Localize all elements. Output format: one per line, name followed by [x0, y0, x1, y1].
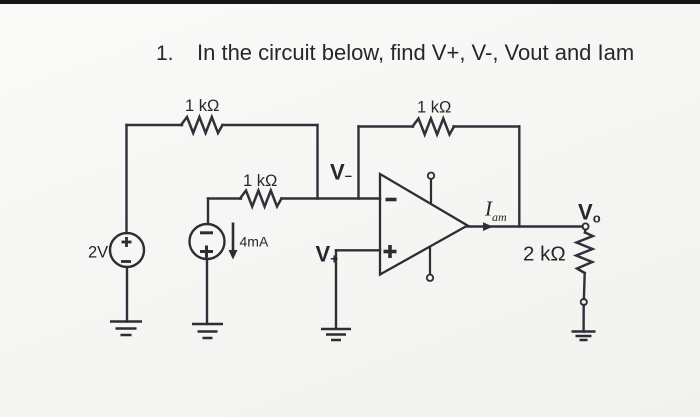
svg-text:V–: V–: [330, 160, 352, 185]
4mA arrowhead: [229, 250, 238, 260]
op-amp inverting input minus sign: [386, 198, 397, 202]
ground for 2k resistor: [572, 332, 596, 341]
ground for 4mA source: [192, 324, 223, 338]
I1 minus sign: [200, 231, 213, 234]
top black bar: [0, 0, 700, 4]
4mA arrow line: [232, 223, 235, 252]
I1 plus sign: [200, 246, 213, 258]
svg-text:Vo: Vo: [578, 200, 601, 226]
svg-text:1 kΩ: 1 kΩ: [243, 172, 277, 190]
svg-text:V+: V+: [316, 242, 339, 267]
output current arrowhead Iam: [483, 222, 493, 231]
wire: V+ drop to ground: [335, 250, 337, 329]
resistor R1 1 kOhm (top-left): [181, 117, 223, 133]
voltage source V1 2V circle: [110, 233, 144, 267]
op-amp U1 triangle: [380, 174, 468, 275]
problem title: [156, 40, 634, 66]
resistor R4 2 kOhm (vertical): [576, 233, 593, 274]
wire: 4mA source top connection: [207, 199, 209, 225]
svg-text:4mA: 4mA: [240, 234, 269, 250]
wire: 4mA source bottom to ground: [206, 259, 208, 324]
op-amp non-inverting input plus sign: [384, 245, 397, 258]
wire: feedback top horizontal, left of R3: [359, 125, 414, 127]
op-amp bottom power pin wire: [429, 247, 431, 275]
V1 minus sign: [121, 260, 131, 263]
wire: 2V source bottom to ground: [126, 267, 128, 322]
resistor R3 1 kOhm (feedback): [413, 119, 455, 135]
node connector circle below 2k: [581, 299, 587, 305]
current source I1 4mA circle: [190, 224, 225, 259]
wire: feedback drop to output node: [518, 127, 520, 227]
op-amp top power pin wire: [430, 179, 432, 204]
svg-text:1 kΩ: 1 kΩ: [185, 97, 219, 115]
ground for 2V source: [110, 322, 142, 336]
wire: middle horizontal, right of R2 into op-amp inverting input: [282, 197, 381, 199]
op-amp bottom power pin circle: [427, 275, 433, 281]
wire: op-amp output to Vo node: [468, 225, 583, 227]
wire: connector to ground (bottom right): [582, 305, 585, 332]
svg-text:Iam: Iam: [484, 197, 507, 225]
op-amp top power pin circle: [428, 173, 434, 179]
wire: drop from top wire to V- node: [316, 125, 318, 199]
wire: 2k resistor top short lead: [584, 230, 587, 233]
resistor R2 1 kOhm (middle): [240, 191, 282, 207]
wire: top-left horizontal, left of R1: [127, 124, 183, 126]
V1 plus sign: [122, 237, 132, 247]
wire: V+ horizontal into op-amp non-inverting input: [336, 249, 380, 251]
wire: top-left horizontal, right of R1: [223, 124, 318, 126]
wire: feedback riser from V- wire up: [357, 127, 359, 199]
ground for V+ input: [321, 329, 351, 340]
wire: 2k resistor bottom lead to connector: [583, 273, 586, 299]
svg-text:2V: 2V: [88, 244, 108, 262]
node Vo circle: [582, 223, 588, 229]
wire: middle horizontal, left of R2: [208, 197, 241, 199]
svg-text:1 kΩ: 1 kΩ: [417, 99, 451, 117]
wire: left rail from top wire down to 2V source: [125, 125, 127, 233]
wire: feedback top horizontal, right of R3: [454, 125, 520, 127]
svg-text:2 kΩ: 2 kΩ: [523, 243, 566, 266]
